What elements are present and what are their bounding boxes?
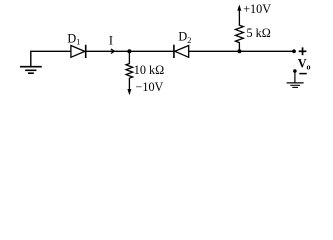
ground GND2 (right) [287,83,304,88]
node: output - terminal dot [293,69,297,73]
wire: GND1 stem up and right to D1 anode [31,51,71,66]
node A junction dot [127,49,131,53]
svg-text:5 kΩ: 5 kΩ [247,26,271,40]
wire: D1 cathode to node A [86,50,130,52]
supply +10V arrow terminal [237,5,241,11]
svg-text:I: I [109,34,113,48]
wire: D2 anode to node B to output + [189,50,294,52]
svg-text:−10V: −10V [136,80,164,94]
diode D1 [71,45,86,58]
current arrow I [111,49,115,53]
node B junction dot [237,49,241,53]
svg-text:10 kΩ: 10 kΩ [134,63,164,77]
label - (output polarity) [299,73,307,75]
resistor R2 5 kOhm (vertical) [236,11,244,52]
supply -10V arrow terminal [127,89,131,95]
wire: output - down to GND2 [294,71,296,83]
ground GND1 (left) [20,67,42,74]
svg-text:+10V: +10V [243,2,271,16]
resistor R1 10 kOhm (vertical) [126,51,133,89]
diode D2 (pointing left) [174,45,189,58]
label + (output polarity) [299,47,307,55]
wire: node A to D2 cathode [129,50,174,52]
node: output + terminal dot [292,49,296,53]
